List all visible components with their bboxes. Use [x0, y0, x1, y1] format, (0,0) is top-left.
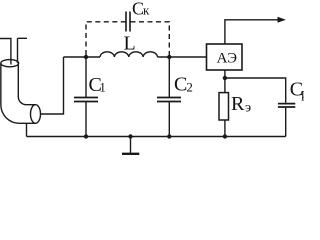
svg-text:Ср: Ср	[290, 79, 304, 102]
svg-text:L: L	[124, 33, 136, 55]
svg-text:Ск: Ск	[132, 0, 150, 18]
svg-text:АЭ: АЭ	[217, 51, 237, 67]
